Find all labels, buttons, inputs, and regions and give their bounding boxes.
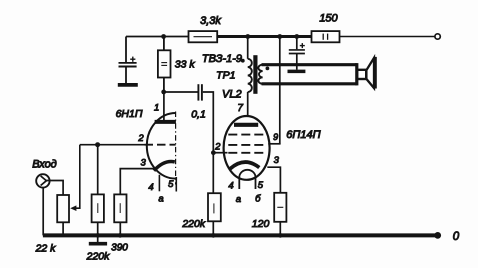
node polarity dot secondary bbox=[266, 67, 270, 71]
wire primary to anode VL2 bbox=[247, 92, 249, 116]
svg-text:150: 150 bbox=[319, 12, 338, 24]
terminal input bbox=[36, 174, 49, 187]
tube VL2 6P14P envelope bbox=[224, 116, 270, 180]
cathode VL1 bbox=[154, 162, 175, 171]
svg-text:220k: 220k bbox=[181, 218, 206, 230]
wire screen grid to rail bbox=[279, 37, 281, 144]
svg-text:2: 2 bbox=[137, 133, 144, 144]
anode VL1 bbox=[155, 120, 176, 124]
svg-text:33 k: 33 k bbox=[175, 58, 196, 70]
resistor 220k (VL2 grid) bbox=[181, 193, 220, 235]
svg-text:а: а bbox=[158, 194, 163, 205]
terminal +U (open circle) bbox=[435, 34, 440, 39]
svg-text:2: 2 bbox=[214, 141, 221, 152]
heater VL2 bbox=[239, 170, 255, 189]
svg-text:Вход: Вход bbox=[32, 159, 57, 171]
node bus/120 bbox=[278, 233, 283, 238]
svg-text:ТВЗ-1-9: ТВЗ-1-9 bbox=[202, 53, 242, 65]
svg-text:0: 0 bbox=[453, 231, 460, 243]
transformer TR1 primary winding bbox=[248, 59, 252, 92]
terminal 0 (filled dot) bbox=[434, 232, 441, 239]
svg-text:5: 5 bbox=[168, 179, 174, 190]
svg-text:3: 3 bbox=[141, 158, 147, 169]
node anode VL1 / coupling bbox=[161, 90, 166, 95]
wire pin 1 anode VL1 bbox=[163, 92, 165, 120]
grid VL1 (dashed) bbox=[145, 144, 176, 146]
node grid VL2 bbox=[211, 150, 216, 155]
svg-text:3: 3 bbox=[274, 155, 280, 166]
svg-text:6П14П: 6П14П bbox=[286, 129, 320, 141]
resistor 390 bbox=[111, 194, 128, 253]
svg-text:VL2: VL2 bbox=[222, 89, 242, 101]
wire grid-leak down to bus bbox=[212, 153, 214, 194]
resistor 33k bbox=[158, 37, 195, 93]
wire input to pot bbox=[46, 181, 63, 196]
resistor 120 bbox=[252, 193, 287, 236]
wire speaker bottom bbox=[262, 82, 357, 85]
node rail/cap C2 bbox=[294, 34, 299, 39]
node rail/screen line bbox=[277, 34, 282, 39]
transformer TR1 primary lead bbox=[247, 37, 249, 59]
svg-text:4: 4 bbox=[228, 181, 233, 192]
svg-text:0,1: 0,1 bbox=[191, 109, 206, 121]
wire wiper to grid VL1 bbox=[75, 145, 80, 209]
node bus/220k left bbox=[96, 233, 101, 238]
node wiper/220k junction bbox=[95, 142, 100, 147]
svg-text:6Н1П: 6Н1П bbox=[116, 108, 143, 120]
svg-text:3,3k: 3,3k bbox=[200, 15, 221, 27]
svg-text:7: 7 bbox=[237, 103, 243, 114]
potentiometer 22k bbox=[35, 195, 69, 255]
wire coupling cap to grid line bbox=[203, 92, 214, 153]
svg-text:1: 1 bbox=[154, 103, 159, 114]
node junction rail/33k bbox=[161, 34, 166, 39]
svg-text:220k: 220k bbox=[86, 251, 111, 263]
wiper arrowhead bbox=[70, 205, 76, 211]
grid g1 VL2 (dashed) bbox=[228, 152, 265, 154]
capacitor C2 electrolytic (right) bbox=[289, 37, 305, 70]
ground (bus) bbox=[89, 235, 107, 243]
ground (C2) bbox=[288, 70, 306, 74]
wire speaker top bbox=[262, 63, 357, 66]
tube VL1 6N1P envelope (half) bbox=[147, 113, 176, 179]
wire rail right thin bbox=[340, 36, 436, 38]
wire 220k top bbox=[97, 145, 99, 195]
node bus/220k bbox=[211, 233, 216, 238]
wire grid stub VL2 bbox=[213, 152, 227, 154]
svg-text:120: 120 bbox=[252, 218, 270, 230]
wire top rail thick (B+) bbox=[217, 35, 311, 38]
cathode VL2 bbox=[230, 162, 259, 169]
node bus/390 bbox=[118, 233, 123, 238]
svg-text:390: 390 bbox=[111, 243, 128, 254]
speaker BA1 bbox=[357, 57, 375, 89]
node polarity dot primary bbox=[241, 59, 245, 63]
tube VL1 split line (dash-dot) bbox=[175, 112, 177, 185]
transformer secondary winding bbox=[258, 65, 262, 84]
svg-text:5: 5 bbox=[258, 180, 264, 191]
svg-text:9: 9 bbox=[273, 132, 278, 142]
transformer core bbox=[253, 55, 257, 94]
wire pin 5 heater VL1 bbox=[175, 177, 177, 192]
wire to coupling cap bbox=[164, 91, 198, 93]
wire top rail left (thin) bbox=[126, 36, 189, 38]
svg-text:ТР1: ТР1 bbox=[216, 69, 235, 81]
svg-text:а: а bbox=[236, 194, 241, 205]
wire grid VL1 from pot bbox=[80, 144, 145, 146]
anode VL2 bbox=[234, 123, 258, 127]
wire input ground bbox=[42, 188, 44, 236]
wire screen stub bbox=[268, 143, 280, 145]
svg-text:4: 4 bbox=[148, 182, 153, 193]
wire cathode VL2 to 120 bbox=[267, 167, 280, 193]
resistor 150 bbox=[312, 12, 340, 42]
ground (C1) bbox=[118, 83, 138, 87]
wire pin 4 heater VL1 bbox=[158, 175, 160, 192]
capacitor C1 electrolytic (left) bbox=[119, 37, 137, 84]
grid g3 VL2 (dashed) bbox=[228, 134, 265, 136]
grid g2 VL2 (dashed) bbox=[228, 144, 265, 146]
resistor 3,3k bbox=[189, 15, 222, 42]
node rail/transformer primary bbox=[245, 34, 250, 39]
svg-text:22 k: 22 k bbox=[35, 243, 57, 255]
wire cathode VL1 to 390 bbox=[120, 169, 154, 195]
svg-text:б: б bbox=[255, 193, 261, 204]
resistor 220k (grid leak VL1) bbox=[86, 194, 111, 262]
wire ground bus bbox=[43, 233, 438, 237]
capacitor 0,1 bbox=[191, 84, 206, 120]
